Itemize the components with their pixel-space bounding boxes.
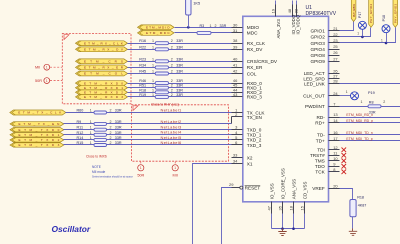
pin 17 TD+ xyxy=(316,136,340,144)
svg-text:29: 29 xyxy=(229,182,234,187)
svg-text:RD+: RD+ xyxy=(315,121,325,126)
svg-text:ETM_RX_CLK: ETM_RX_CLK xyxy=(84,41,124,45)
svg-text:CRS/CRS_DV: CRS/CRS_DV xyxy=(247,59,278,64)
pin 3 TXD_0 xyxy=(232,125,262,133)
wire RESET down xyxy=(222,188,232,244)
svg-text:RX_CLK: RX_CLK xyxy=(247,41,266,46)
marker 50R (1) left xyxy=(35,78,62,84)
wire GPIO1 to flag xyxy=(340,22,354,31)
svg-text:22: 22 xyxy=(333,32,338,37)
wire ETM_TXD0 row xyxy=(64,129,232,131)
svg-text:33R: 33R xyxy=(176,79,183,83)
svg-text:2: 2 xyxy=(171,88,173,92)
svg-text:P18: P18 xyxy=(382,15,386,21)
svg-text:12: 12 xyxy=(333,145,338,150)
placement region box 2 (TX group, close to PHY) xyxy=(131,105,228,161)
wire ETM_TXD3 row xyxy=(64,144,232,146)
wire ETM_RXD2 row xyxy=(128,92,232,94)
svg-text:28: 28 xyxy=(333,79,338,84)
resistor R16 33R xyxy=(139,39,183,45)
wire ETM_TXD1 row xyxy=(64,134,232,136)
svg-text:2: 2 xyxy=(171,63,173,67)
pin 4 TXD_1 xyxy=(232,130,262,138)
ground (R18) xyxy=(349,229,357,236)
resistor R23 33R xyxy=(139,57,183,63)
svg-text:1: 1 xyxy=(361,100,363,104)
svg-text:1: 1 xyxy=(90,131,92,135)
svg-text:TXD_3: TXD_3 xyxy=(247,143,262,148)
label Close to PHY (vcc) xyxy=(151,103,179,107)
svg-text:2: 2 xyxy=(110,141,112,145)
resistor R51 33R xyxy=(139,84,183,90)
svg-text:TRST#: TRST# xyxy=(310,153,325,158)
note text xyxy=(92,165,133,178)
svg-text:2: 2 xyxy=(171,57,173,61)
wire ETM_RX_ER row xyxy=(128,67,232,69)
wire ETM_COL row xyxy=(128,73,232,75)
net flag ETM_RX_ER xyxy=(76,65,128,70)
svg-text:33R: 33R xyxy=(115,108,122,112)
svg-text:24: 24 xyxy=(333,91,338,96)
svg-text:MDIO: MDIO xyxy=(247,25,260,30)
pin 28 LED_LNK xyxy=(304,79,340,87)
resistor R18 4K87 xyxy=(350,195,366,217)
pin 32 IO_VDDQ (top) xyxy=(293,1,300,35)
pin 20 VREF xyxy=(312,183,339,191)
net label ETM_MDI_RD_n xyxy=(346,113,373,117)
marker 50R (1) bottom xyxy=(137,162,144,178)
pin 5 TXD_2 xyxy=(232,135,262,143)
svg-text:1: 1 xyxy=(381,39,383,43)
svg-text:R11: R11 xyxy=(77,126,84,130)
svg-text:ETM_TX_EN: ETM_TX_EN xyxy=(19,122,60,126)
svg-text:38: 38 xyxy=(233,38,238,43)
svg-text:2: 2 xyxy=(383,100,385,104)
svg-text:2: 2 xyxy=(171,79,173,83)
pin 18 ANA_VSS (bottom) xyxy=(289,179,297,229)
ground (VSS bus) xyxy=(278,229,286,236)
svg-text:26: 26 xyxy=(333,50,338,55)
svg-text:2: 2 xyxy=(215,24,217,28)
wire ETM_TX_EN row with jog to pin 2 xyxy=(64,117,232,124)
net label NetLabel6 xyxy=(161,140,182,145)
resistor R22 33R xyxy=(139,45,183,51)
svg-text:RX_ER: RX_ER xyxy=(247,65,263,70)
svg-text:TCK: TCK xyxy=(315,170,325,175)
wire TD+ to edge xyxy=(340,140,400,142)
resistor R60 33R xyxy=(77,108,122,114)
svg-text:16: 16 xyxy=(333,130,338,135)
svg-text:MDC: MDC xyxy=(247,31,258,36)
svg-text:23: 23 xyxy=(333,38,338,43)
svg-text:R9: R9 xyxy=(77,120,82,124)
svg-text:33R: 33R xyxy=(115,136,122,140)
svg-text:1: 1 xyxy=(152,79,154,83)
svg-text:ETM_RX_ER: ETM_RX_ER xyxy=(84,66,124,70)
svg-text:1: 1 xyxy=(152,63,154,67)
svg-text:X2: X2 xyxy=(247,156,253,161)
net label ETM_MDI_TD_n xyxy=(346,131,372,135)
junction GPIO2 testpoint xyxy=(361,30,364,39)
svg-text:35: 35 xyxy=(278,205,283,210)
pin 24 CLK_OUT xyxy=(303,91,339,99)
svg-text:R60: R60 xyxy=(77,108,84,112)
resistor R45 33R xyxy=(139,70,183,76)
svg-text:R12: R12 xyxy=(77,131,84,135)
svg-text:33R: 33R xyxy=(115,120,122,124)
svg-text:2: 2 xyxy=(171,39,173,43)
svg-text:42: 42 xyxy=(233,69,238,74)
wire ETM_MDIO to pin 30 xyxy=(175,27,232,29)
pin 15 CD_VSS (bottom) xyxy=(300,182,308,229)
svg-text:RESET: RESET xyxy=(245,185,261,190)
svg-text:PHY_GPIO3: PHY_GPIO3 xyxy=(394,3,398,23)
svg-text:TD-: TD- xyxy=(317,133,325,138)
svg-text:LED_LNK: LED_LNK xyxy=(304,82,326,87)
svg-text:33R: 33R xyxy=(115,141,122,145)
value DP83640TVV xyxy=(306,11,337,17)
wire ETM_RXD3 row xyxy=(128,96,232,98)
wire VSS bottom bus xyxy=(272,228,305,230)
svg-text:27: 27 xyxy=(333,56,338,61)
svg-text:R46: R46 xyxy=(139,79,146,83)
svg-text:X1: X1 xyxy=(247,161,253,166)
svg-text:33R: 33R xyxy=(176,57,183,61)
resistor R34 33R xyxy=(139,63,183,69)
net flag ETM_RXD2 xyxy=(76,90,128,95)
svg-text:1: 1 xyxy=(152,88,154,92)
svg-text:GPIO3: GPIO3 xyxy=(310,41,325,46)
pin 38 RX_CLK xyxy=(232,38,266,46)
svg-text:R3: R3 xyxy=(200,24,205,28)
svg-text:17: 17 xyxy=(333,136,338,141)
test point P18 xyxy=(381,15,390,43)
net flag ETM_TXD0 xyxy=(10,128,64,132)
resistor R46 33R xyxy=(139,79,183,85)
svg-text:CLK_OUT: CLK_OUT xyxy=(303,94,325,99)
svg-text:32: 32 xyxy=(293,8,298,13)
pin 9 TDO xyxy=(315,161,340,169)
wire TD- to edge xyxy=(340,134,400,136)
svg-text:30: 30 xyxy=(233,22,238,27)
svg-text:33R: 33R xyxy=(176,39,183,43)
net flag ETM_COL xyxy=(76,71,128,76)
net flag ETM_MDC xyxy=(138,31,175,36)
pin 23 GPIO3 xyxy=(310,38,339,46)
wire VREF to R18 xyxy=(340,189,353,200)
svg-text:50R: 50R xyxy=(137,173,144,177)
svg-text:1: 1 xyxy=(46,66,48,70)
svg-text:GPIO1: GPIO1 xyxy=(310,29,325,34)
svg-text:2: 2 xyxy=(110,131,112,135)
svg-text:1K5: 1K5 xyxy=(193,1,200,6)
svg-text:RX_DV: RX_DV xyxy=(247,47,264,52)
svg-text:TDO: TDO xyxy=(315,164,325,169)
svg-text:GPIO8: GPIO8 xyxy=(310,53,325,58)
svg-text:Oscillator: Oscillator xyxy=(52,224,91,234)
svg-text:14: 14 xyxy=(333,118,338,123)
svg-text:MII: MII xyxy=(173,173,178,177)
resistor R19 33R xyxy=(139,93,183,99)
net label NetLabel4 xyxy=(161,130,182,135)
svg-text:IO_CORE_VSS: IO_CORE_VSS xyxy=(281,168,286,199)
svg-text:GPIO4: GPIO4 xyxy=(310,47,325,52)
pin 1 TX_CLK xyxy=(232,108,266,116)
net flag ETM_TX_CLK xyxy=(10,110,66,115)
wire GPIO2 to flag xyxy=(340,28,371,37)
svg-text:IO_VDDQ: IO_VDDQ xyxy=(295,14,300,34)
svg-text:1: 1 xyxy=(46,79,48,83)
marker MII (1) bottom xyxy=(172,162,178,178)
svg-text:1: 1 xyxy=(90,126,92,130)
svg-text:1: 1 xyxy=(90,141,92,145)
net label NetLabel3 xyxy=(161,125,182,130)
pin 29 RESET (inverted) xyxy=(229,182,260,190)
net label NetLabel1 xyxy=(161,107,182,112)
label Close to IMX6 xyxy=(86,155,107,159)
wire RD+ to edge xyxy=(340,122,400,124)
pin 48 IO_VDDQ (top) xyxy=(287,1,296,35)
svg-text:TX_EN: TX_EN xyxy=(247,115,262,120)
wire R18 to ground xyxy=(352,217,354,229)
pin 34 X1 xyxy=(232,159,253,167)
svg-text:50R: 50R xyxy=(35,79,42,83)
pin 25 GPIO4 xyxy=(310,44,339,52)
net flag ETM_RX_DV xyxy=(76,47,128,52)
net label ETM_MDI_TD_p xyxy=(346,137,372,141)
wire GPIO3 to flag xyxy=(340,28,396,43)
svg-text:PWD/INT: PWD/INT xyxy=(305,104,325,109)
svg-text:ETM_MDI_RD_p: ETM_MDI_RD_p xyxy=(346,119,373,123)
svg-text:GPIO2: GPIO2 xyxy=(310,35,325,40)
designator U1 xyxy=(306,5,313,11)
net label ETM_MDI_RD_p xyxy=(346,119,373,123)
svg-text:1: 1 xyxy=(152,39,154,43)
pin 16 TD- xyxy=(317,130,340,138)
svg-text:2: 2 xyxy=(110,136,112,140)
svg-text:1: 1 xyxy=(90,108,92,112)
svg-text:ETM_MDIO: ETM_MDIO xyxy=(146,26,170,30)
pin 46 RXD_0 xyxy=(232,78,263,86)
svg-text:1: 1 xyxy=(152,84,154,88)
pin 21 GPIO1 xyxy=(310,26,339,34)
svg-text:33R: 33R xyxy=(176,93,183,97)
svg-text:1: 1 xyxy=(152,45,154,49)
net flag ETM_MDIO xyxy=(138,25,175,30)
svg-text:ETM_MDI_TD_p: ETM_MDI_TD_p xyxy=(346,137,372,141)
svg-text:19: 19 xyxy=(271,8,276,13)
resistor R15 33R xyxy=(77,141,122,147)
wire ETM_MDC to pin 31 xyxy=(175,32,232,34)
svg-text:33: 33 xyxy=(233,153,238,158)
svg-text:U1: U1 xyxy=(306,5,313,11)
wire ETM_RX_DV row xyxy=(128,49,232,51)
svg-text:2: 2 xyxy=(171,84,173,88)
wire X1 to oscillator xyxy=(193,164,232,244)
svg-text:TDI: TDI xyxy=(317,148,325,153)
svg-text:ETM_MDI_RD_n: ETM_MDI_RD_n xyxy=(346,113,373,117)
svg-text:R19: R19 xyxy=(139,93,146,97)
svg-text:1: 1 xyxy=(357,32,359,36)
junction at ANA_VSS xyxy=(292,227,295,230)
net flag PHY_GPIO2 (vertical) xyxy=(369,0,374,27)
wire LED_LNK xyxy=(340,83,400,85)
pin 42 COL xyxy=(232,69,257,77)
svg-text:R15: R15 xyxy=(77,141,84,145)
resistor R8 33R xyxy=(361,100,386,114)
svg-text:33R: 33R xyxy=(176,45,183,49)
svg-text:4K87: 4K87 xyxy=(358,203,367,207)
svg-text:VREF: VREF xyxy=(312,186,325,191)
pin 35 IO_CORE_VSS (bottom) xyxy=(278,168,286,228)
svg-text:P19: P19 xyxy=(368,91,375,95)
svg-text:NetLabel2: NetLabel2 xyxy=(161,119,182,124)
svg-text:10: 10 xyxy=(333,156,338,161)
svg-text:R16: R16 xyxy=(139,39,146,43)
svg-text:R8: R8 xyxy=(369,100,374,104)
svg-text:ETM_MDI_TD_n: ETM_MDI_TD_n xyxy=(346,131,372,135)
svg-text:18: 18 xyxy=(289,205,294,210)
svg-text:RD-: RD- xyxy=(316,115,325,120)
svg-text:GPIO9: GPIO9 xyxy=(310,59,325,64)
pin 11 TRST# xyxy=(310,150,340,158)
no-connect X on TRST# xyxy=(342,153,347,158)
svg-text:DP83640TVV: DP83640TVV xyxy=(306,11,337,17)
svg-text:PHY_GPIO1: PHY_GPIO1 xyxy=(352,3,356,17)
pin 33 X2 xyxy=(232,153,253,161)
svg-text:2: 2 xyxy=(171,93,173,97)
no-connect X on TMS xyxy=(342,159,347,164)
svg-text:NOTE: NOTE xyxy=(92,165,101,169)
net flag PHY_GPIO1 (vertical) xyxy=(351,0,356,22)
section title Oscillator xyxy=(52,224,91,234)
resistor R9 33R xyxy=(77,120,122,126)
net flag ETM_CRS xyxy=(76,59,128,64)
svg-text:2: 2 xyxy=(110,108,112,112)
svg-text:ANA_3V3: ANA_3V3 xyxy=(276,19,281,39)
net flag ETM_TXD1 xyxy=(10,133,64,137)
svg-text:R18: R18 xyxy=(357,195,364,199)
junction MDIO pull-up xyxy=(187,26,190,29)
svg-text:15: 15 xyxy=(300,205,305,210)
wire ETM_CRS row xyxy=(128,61,232,63)
pin 27 GPIO9 xyxy=(310,56,339,64)
placement region box 1 (RX group) xyxy=(62,34,131,104)
svg-text:2: 2 xyxy=(171,45,173,49)
pin 47 IO_VSS (bottom) xyxy=(267,183,275,228)
svg-text:RXD_3: RXD_3 xyxy=(247,95,263,100)
svg-text:48: 48 xyxy=(287,8,292,13)
svg-text:33R: 33R xyxy=(176,84,183,88)
svg-text:2: 2 xyxy=(110,120,112,124)
wire CLK_OUT to P19 xyxy=(340,95,351,97)
svg-text:MII mode: MII mode xyxy=(92,170,106,174)
net flag ETM_TXD3 xyxy=(10,143,64,147)
svg-text:NetLabel1: NetLabel1 xyxy=(161,107,182,112)
pin 40 CRS/CRS_DV xyxy=(232,56,278,64)
wire R8 to edge xyxy=(381,106,400,108)
test point P19 xyxy=(346,90,375,100)
svg-text:TD+: TD+ xyxy=(316,139,325,144)
net flag ETM_TX_EN xyxy=(10,122,64,126)
svg-text:47: 47 xyxy=(267,205,272,210)
svg-text:R22: R22 xyxy=(139,45,146,49)
pin 7 PWD/INT xyxy=(305,101,339,109)
pin 31 MDC xyxy=(232,28,259,36)
pin 19 ANA_3V3 (top) xyxy=(271,1,281,39)
pin 14 RD+ xyxy=(315,118,339,126)
net flag ETM_RXD1 xyxy=(76,85,128,90)
svg-text:COL: COL xyxy=(247,71,257,76)
svg-text:CD_VSS: CD_VSS xyxy=(303,182,308,200)
svg-text:33R: 33R xyxy=(220,24,227,28)
pin 45 RXD_1 xyxy=(232,83,263,91)
resistor R2 1K5 pull-up xyxy=(186,0,201,28)
net flag ETM_RX_CLK xyxy=(76,41,128,46)
pin 30 MDIO xyxy=(232,22,260,30)
svg-text:1: 1 xyxy=(174,166,176,170)
svg-text:IO_VSS: IO_VSS xyxy=(270,183,275,199)
pin 13 RD- xyxy=(316,112,339,120)
svg-text:40: 40 xyxy=(233,56,238,61)
svg-text:R45: R45 xyxy=(139,70,146,74)
svg-text:1: 1 xyxy=(152,57,154,61)
svg-text:Series termination should be a: Series termination should be at source xyxy=(92,176,133,179)
no-connect X on TDI xyxy=(342,148,347,153)
svg-text:20: 20 xyxy=(333,183,338,188)
svg-text:NetLabel6: NetLabel6 xyxy=(161,140,182,145)
pin 44 RXD_2 xyxy=(232,87,263,95)
svg-text:R51: R51 xyxy=(139,84,146,88)
svg-text:ETM_MDC: ETM_MDC xyxy=(146,31,170,35)
pin 39 RX_DV xyxy=(232,44,264,52)
svg-text:R14: R14 xyxy=(77,136,84,140)
net label NetLabel5 xyxy=(161,135,182,140)
svg-text:P17: P17 xyxy=(358,12,362,18)
svg-text:ANA_VSS: ANA_VSS xyxy=(292,179,297,199)
svg-text:Close to PHY (vcc): Close to PHY (vcc) xyxy=(151,103,179,107)
net flag PHY_GPIO3 (vertical) xyxy=(393,0,398,27)
svg-text:39: 39 xyxy=(233,44,238,49)
junction at IO_CORE_VSS xyxy=(281,227,284,230)
IC U1 DP83640TVV body xyxy=(243,16,329,202)
svg-text:25: 25 xyxy=(333,44,338,49)
pin 12 TDI xyxy=(317,145,339,153)
resistor R14 33R xyxy=(77,136,122,142)
pin 10 TMS xyxy=(315,156,340,164)
resistor R3 33R xyxy=(197,24,227,35)
wire ETM_RX_CLK row xyxy=(128,43,232,45)
svg-text:21: 21 xyxy=(333,26,338,31)
svg-text:1: 1 xyxy=(152,93,154,97)
test point P17 xyxy=(357,12,366,36)
net flag ETM_RXD3 xyxy=(76,95,128,100)
wire ETM_TXD2 row xyxy=(64,139,232,141)
svg-text:33R: 33R xyxy=(115,126,122,130)
wire RD- to edge xyxy=(340,117,400,119)
wire PWD/INT to R8 xyxy=(340,106,369,108)
svg-text:MII: MII xyxy=(35,66,40,70)
svg-text:33R: 33R xyxy=(176,70,183,74)
net label NetLabel2 xyxy=(161,119,182,124)
net flag ETM_TXD2 xyxy=(10,138,64,142)
svg-text:13: 13 xyxy=(333,112,338,117)
svg-text:Close to IMX6: Close to IMX6 xyxy=(86,155,107,159)
svg-text:PHY_GPIO2: PHY_GPIO2 xyxy=(369,3,373,23)
svg-text:1: 1 xyxy=(90,136,92,140)
resistor R12 33R xyxy=(77,131,122,137)
svg-text:2: 2 xyxy=(171,70,173,74)
